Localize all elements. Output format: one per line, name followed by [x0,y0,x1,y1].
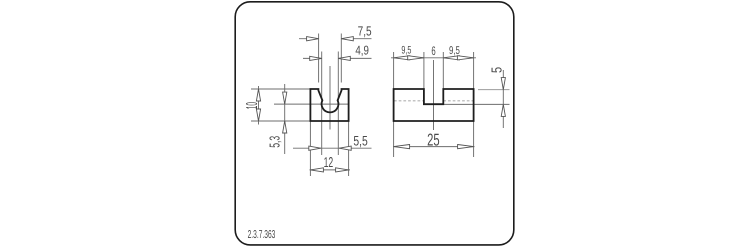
svg-text:12: 12 [324,154,334,171]
svg-text:9,5: 9,5 [449,43,460,56]
svg-text:5,5: 5,5 [353,133,368,149]
svg-text:5: 5 [488,67,505,73]
svg-text:5,3: 5,3 [266,136,283,148]
svg-text:10: 10 [242,102,260,109]
svg-text:9,5: 9,5 [401,44,411,57]
svg-text:4,9: 4,9 [355,43,369,58]
svg-text:25: 25 [427,130,440,150]
svg-text:6: 6 [431,44,436,58]
svg-text:7,5: 7,5 [358,23,372,39]
svg-text:2.3.7.363: 2.3.7.363 [248,228,276,241]
